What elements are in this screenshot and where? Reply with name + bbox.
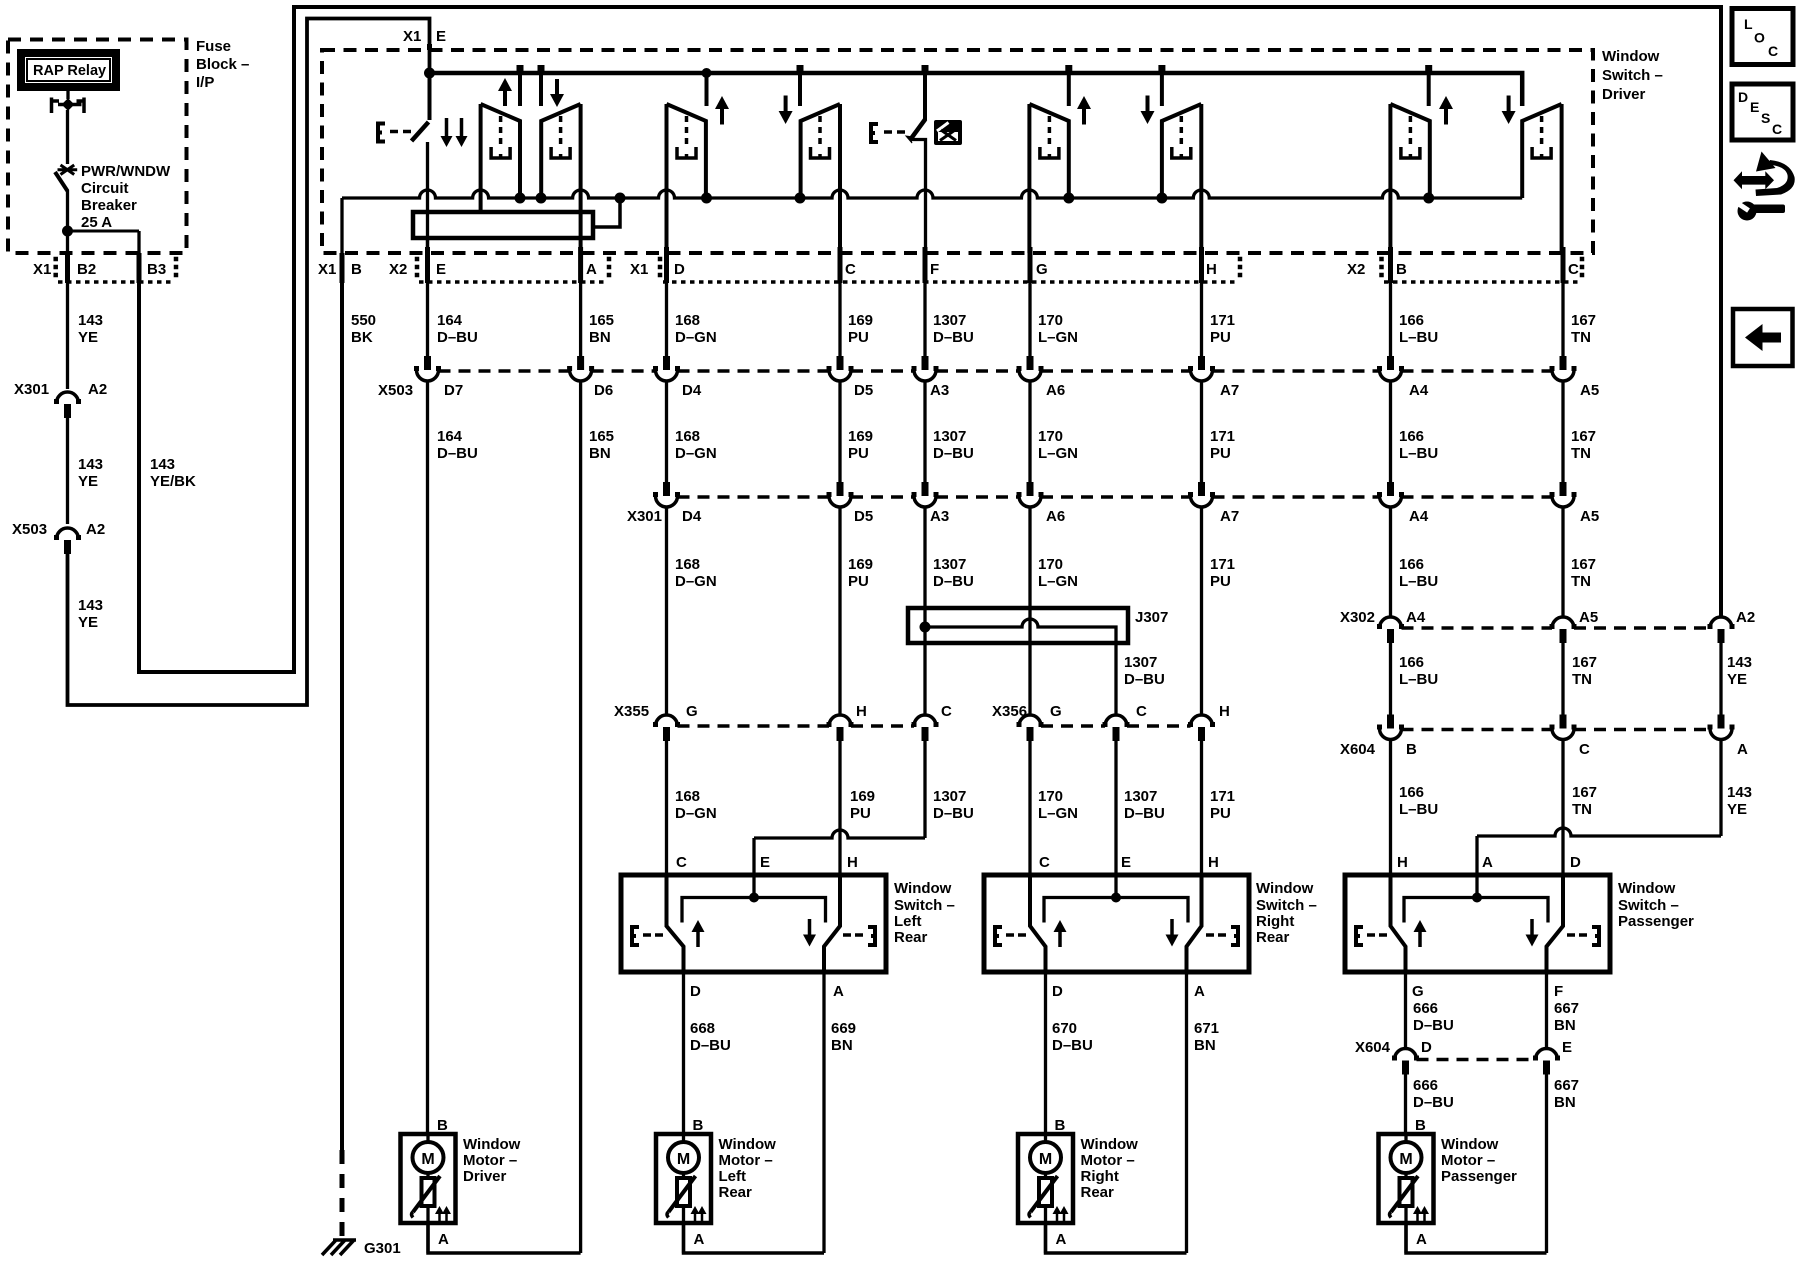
svg-text:YE: YE bbox=[1727, 671, 1747, 688]
svg-text:L: L bbox=[1744, 16, 1753, 32]
svg-text:Motor –: Motor – bbox=[463, 1152, 517, 1169]
svg-text:167: 167 bbox=[1571, 312, 1596, 329]
svg-text:BN: BN bbox=[589, 445, 611, 462]
svg-text:A3: A3 bbox=[930, 382, 949, 399]
fuse block I/P dashed enclosure bbox=[8, 40, 187, 254]
svg-text:C: C bbox=[845, 261, 856, 278]
svg-text:E: E bbox=[436, 261, 446, 278]
svg-text:YE: YE bbox=[1727, 801, 1747, 818]
svg-text:C: C bbox=[1039, 854, 1050, 871]
wire 669 BN bbox=[822, 972, 825, 1253]
svg-text:166: 166 bbox=[1399, 428, 1424, 445]
svg-text:667: 667 bbox=[1554, 1000, 1579, 1017]
svg-text:1307: 1307 bbox=[1124, 654, 1157, 671]
svg-text:Rear: Rear bbox=[719, 1184, 753, 1201]
svg-text:M: M bbox=[1399, 1151, 1412, 1168]
svg-text:H: H bbox=[1206, 261, 1217, 278]
svg-text:D–BU: D–BU bbox=[933, 329, 974, 346]
window motor left rear loop bbox=[684, 1223, 825, 1253]
svg-text:B: B bbox=[1055, 1117, 1066, 1134]
svg-text:D–BU: D–BU bbox=[690, 1037, 731, 1054]
window switch driver dashed box bbox=[322, 50, 1593, 253]
left rear up arrow bbox=[720, 107, 724, 125]
svg-text:168: 168 bbox=[675, 788, 700, 805]
svg-text:S: S bbox=[1761, 110, 1770, 126]
connector row X301 bbox=[663, 482, 670, 496]
svg-text:666: 666 bbox=[1413, 1077, 1438, 1094]
wire 668 D-BU bbox=[682, 972, 685, 1134]
right rear up arrow bbox=[1082, 107, 1086, 125]
svg-text:667: 667 bbox=[1554, 1077, 1579, 1094]
svg-text:G: G bbox=[1036, 261, 1048, 278]
svg-text:165: 165 bbox=[589, 428, 614, 445]
connector strip dotted separators bbox=[415, 257, 420, 262]
window lockout switch bbox=[923, 73, 927, 120]
svg-text:PU: PU bbox=[848, 329, 869, 346]
wire 550 BK dashed to ground bbox=[340, 1150, 345, 1241]
right rear up contact bbox=[1029, 104, 1068, 198]
svg-text:X355: X355 bbox=[614, 703, 649, 720]
wires X356 to right rear switch bbox=[1028, 741, 1031, 877]
svg-text:BN: BN bbox=[831, 1037, 853, 1054]
wire 670 D-BU bbox=[1044, 972, 1047, 1134]
svg-text:B: B bbox=[693, 1117, 704, 1134]
svg-text:B: B bbox=[437, 1117, 448, 1134]
svg-text:A2: A2 bbox=[88, 381, 107, 398]
connector strip dotted lines bbox=[419, 280, 607, 284]
svg-text:TN: TN bbox=[1572, 801, 1592, 818]
svg-text:C: C bbox=[1579, 741, 1590, 758]
svg-text:C: C bbox=[941, 703, 952, 720]
window motor right rear loop bbox=[1046, 1223, 1187, 1253]
svg-text:143: 143 bbox=[1727, 654, 1752, 671]
svg-text:YE/BK: YE/BK bbox=[150, 473, 196, 490]
svg-text:168: 168 bbox=[675, 556, 700, 573]
svg-text:C: C bbox=[1136, 703, 1147, 720]
svg-text:B3: B3 bbox=[147, 261, 166, 278]
svg-text:H: H bbox=[856, 703, 867, 720]
svg-text:Switch –: Switch – bbox=[1256, 897, 1317, 914]
svg-text:D–BU: D–BU bbox=[437, 445, 478, 462]
svg-text:143: 143 bbox=[78, 456, 103, 473]
svg-text:666: 666 bbox=[1413, 1000, 1438, 1017]
J307 internal bus bbox=[925, 619, 1116, 643]
svg-text:B: B bbox=[1396, 261, 1407, 278]
svg-text:143: 143 bbox=[78, 597, 103, 614]
svg-text:171: 171 bbox=[1210, 556, 1235, 573]
svg-text:D–GN: D–GN bbox=[675, 329, 717, 346]
svg-text:YE: YE bbox=[78, 473, 98, 490]
svg-text:Window: Window bbox=[1081, 1136, 1139, 1153]
svg-text:164: 164 bbox=[437, 312, 463, 329]
window motor passenger loop bbox=[1406, 1223, 1547, 1253]
svg-text:F: F bbox=[930, 261, 939, 278]
svg-text:Right: Right bbox=[1256, 913, 1294, 930]
svg-text:TN: TN bbox=[1571, 329, 1591, 346]
right rear down contact bbox=[1162, 104, 1201, 198]
svg-text:M: M bbox=[1039, 1151, 1052, 1168]
svg-text:170: 170 bbox=[1038, 788, 1063, 805]
svg-text:H: H bbox=[1219, 703, 1230, 720]
wire 666 D-BU upper bbox=[1404, 972, 1407, 1048]
wire 143 YE to driver switch X1-E bbox=[68, 19, 430, 706]
svg-text:A4: A4 bbox=[1409, 508, 1429, 525]
wires X301 down bbox=[665, 507, 668, 715]
svg-text:A: A bbox=[1482, 854, 1493, 871]
svg-text:X604: X604 bbox=[1355, 1039, 1391, 1056]
driver down contact bbox=[541, 104, 580, 198]
wires X604 to passenger switch bbox=[1389, 740, 1392, 877]
svg-text:Left: Left bbox=[719, 1168, 747, 1185]
window motor driver ground loop bbox=[428, 1223, 581, 1253]
svg-text:A: A bbox=[1416, 1231, 1427, 1248]
svg-text:671: 671 bbox=[1194, 1020, 1219, 1037]
svg-text:L–BU: L–BU bbox=[1399, 801, 1438, 818]
svg-text:D: D bbox=[1738, 89, 1748, 105]
svg-text:X356: X356 bbox=[992, 703, 1027, 720]
connector row X356 bbox=[1019, 715, 1041, 726]
svg-text:BN: BN bbox=[1194, 1037, 1216, 1054]
svg-text:A6: A6 bbox=[1046, 508, 1065, 525]
svg-text:X2: X2 bbox=[1347, 261, 1365, 278]
window lockout icon bbox=[934, 120, 962, 145]
svg-text:Left: Left bbox=[894, 913, 922, 930]
svg-text:170: 170 bbox=[1038, 428, 1063, 445]
svg-text:PU: PU bbox=[1210, 329, 1231, 346]
svg-text:G301: G301 bbox=[364, 1240, 401, 1257]
svg-text:PWR/WNDW: PWR/WNDW bbox=[81, 163, 171, 180]
svg-text:D–BU: D–BU bbox=[933, 573, 974, 590]
svg-text:A6: A6 bbox=[1046, 382, 1065, 399]
svg-text:A: A bbox=[833, 983, 844, 1000]
svg-text:170: 170 bbox=[1038, 312, 1063, 329]
svg-text:BN: BN bbox=[1554, 1094, 1576, 1111]
icon wiring diagram arrows bbox=[1734, 171, 1775, 189]
passenger down contact bbox=[1522, 104, 1561, 198]
svg-text:A5: A5 bbox=[1579, 609, 1598, 626]
svg-text:L–GN: L–GN bbox=[1038, 805, 1078, 822]
svg-text:D–GN: D–GN bbox=[675, 805, 717, 822]
svg-text:166: 166 bbox=[1399, 312, 1424, 329]
svg-text:L–BU: L–BU bbox=[1399, 445, 1438, 462]
svg-text:D–BU: D–BU bbox=[1052, 1037, 1093, 1054]
svg-text:L–GN: L–GN bbox=[1038, 329, 1078, 346]
svg-text:Motor –: Motor – bbox=[1081, 1152, 1135, 1169]
svg-text:G: G bbox=[686, 703, 698, 720]
svg-text:PU: PU bbox=[848, 445, 869, 462]
wire 550 BK pin stub bbox=[340, 253, 345, 283]
ground G301 bbox=[322, 1240, 356, 1255]
svg-text:D–BU: D–BU bbox=[1413, 1017, 1454, 1034]
svg-text:D: D bbox=[1570, 854, 1581, 871]
svg-text:168: 168 bbox=[675, 312, 700, 329]
RAP relay K77 bbox=[21, 53, 116, 87]
driver up arrow bbox=[503, 89, 507, 106]
svg-text:E: E bbox=[1121, 854, 1131, 871]
svg-text:BN: BN bbox=[589, 329, 611, 346]
svg-text:C: C bbox=[676, 854, 687, 871]
svg-text:D–BU: D–BU bbox=[933, 805, 974, 822]
svg-text:X604: X604 bbox=[1340, 741, 1376, 758]
wire RAP relay to breaker bbox=[66, 87, 69, 99]
svg-text:669: 669 bbox=[831, 1020, 856, 1037]
svg-text:D4: D4 bbox=[682, 508, 702, 525]
window switch passenger box bbox=[1345, 875, 1610, 972]
wire 666 D-BU lower bbox=[1404, 1074, 1407, 1134]
svg-text:Window: Window bbox=[1602, 48, 1660, 65]
svg-text:Switch –: Switch – bbox=[1618, 897, 1679, 914]
svg-text:165: 165 bbox=[589, 312, 614, 329]
svg-text:X301: X301 bbox=[627, 508, 662, 525]
svg-text:D–GN: D–GN bbox=[675, 573, 717, 590]
power bus in driver switch bbox=[430, 73, 1523, 106]
svg-text:X301: X301 bbox=[14, 381, 49, 398]
svg-text:167: 167 bbox=[1572, 784, 1597, 801]
svg-text:Motor –: Motor – bbox=[1441, 1152, 1495, 1169]
svg-text:Window: Window bbox=[1256, 880, 1314, 897]
svg-text:RAP Relay: RAP Relay bbox=[33, 63, 106, 79]
svg-text:X503: X503 bbox=[12, 521, 47, 538]
express double down arrows bbox=[445, 118, 449, 138]
svg-text:PU: PU bbox=[850, 805, 871, 822]
svg-text:550: 550 bbox=[351, 312, 376, 329]
svg-text:Circuit: Circuit bbox=[81, 180, 129, 197]
window switch right rear box bbox=[984, 875, 1249, 972]
wires X302 to X604 bbox=[1389, 643, 1392, 715]
svg-text:D5: D5 bbox=[854, 508, 873, 525]
svg-text:PU: PU bbox=[848, 573, 869, 590]
wires X503 to X301 bbox=[426, 381, 429, 1134]
passenger up contact bbox=[1390, 104, 1429, 198]
svg-text:Passenger: Passenger bbox=[1618, 913, 1694, 930]
svg-text:X1: X1 bbox=[318, 261, 336, 278]
wire 143 YE/BK from X1-B3 to X302 bbox=[137, 253, 142, 283]
svg-text:Window: Window bbox=[1441, 1136, 1499, 1153]
right rear down arrow bbox=[1146, 96, 1150, 114]
svg-text:25 A: 25 A bbox=[81, 214, 112, 231]
svg-text:D–BU: D–BU bbox=[933, 445, 974, 462]
svg-text:H: H bbox=[847, 854, 858, 871]
connector X301 pin A2 (left) bbox=[57, 392, 79, 403]
svg-text:Breaker: Breaker bbox=[81, 197, 137, 214]
svg-text:F: F bbox=[1554, 983, 1563, 1000]
svg-text:BN: BN bbox=[1554, 1017, 1576, 1034]
svg-text:D–GN: D–GN bbox=[675, 445, 717, 462]
connector row X503 bbox=[424, 356, 431, 370]
svg-text:Block –: Block – bbox=[196, 56, 249, 73]
svg-text:Motor –: Motor – bbox=[719, 1152, 773, 1169]
svg-text:C: C bbox=[1768, 43, 1778, 59]
svg-text:B: B bbox=[1406, 741, 1417, 758]
svg-text:1307: 1307 bbox=[933, 312, 966, 329]
svg-text:Rear: Rear bbox=[894, 929, 928, 946]
wire 667 BN lower bbox=[1545, 1074, 1548, 1253]
svg-text:Driver: Driver bbox=[1602, 86, 1646, 103]
svg-text:169: 169 bbox=[848, 556, 873, 573]
svg-text:Switch –: Switch – bbox=[1602, 67, 1663, 84]
svg-text:E: E bbox=[1750, 99, 1759, 115]
left rear down contact bbox=[801, 104, 840, 198]
svg-text:D7: D7 bbox=[444, 382, 463, 399]
svg-text:E: E bbox=[436, 28, 446, 45]
svg-text:Driver: Driver bbox=[463, 1168, 507, 1185]
svg-text:TN: TN bbox=[1571, 445, 1591, 462]
wire breaker to X1 pins bbox=[66, 190, 69, 253]
svg-text:Rear: Rear bbox=[1256, 929, 1290, 946]
svg-text:Right: Right bbox=[1081, 1168, 1119, 1185]
icon back arrow bbox=[1733, 309, 1793, 366]
wire 667 BN upper bbox=[1545, 972, 1548, 1048]
express down switch E marker bbox=[378, 124, 385, 142]
svg-text:PU: PU bbox=[1210, 573, 1231, 590]
svg-text:BK: BK bbox=[351, 329, 373, 346]
wires X355 to left rear switch bbox=[665, 741, 668, 877]
svg-text:168: 168 bbox=[675, 428, 700, 445]
passenger down arrow bbox=[1507, 96, 1511, 114]
svg-text:YE: YE bbox=[78, 329, 98, 346]
connector row X604 lower bbox=[1395, 1049, 1417, 1060]
svg-text:670: 670 bbox=[1052, 1020, 1077, 1037]
express down switch blade bbox=[428, 71, 432, 120]
bus tap junctions bbox=[517, 65, 524, 73]
svg-text:A4: A4 bbox=[1409, 382, 1429, 399]
svg-text:M: M bbox=[421, 1151, 434, 1168]
svg-text:143: 143 bbox=[150, 456, 175, 473]
svg-text:PU: PU bbox=[1210, 445, 1231, 462]
driver down arrow bbox=[555, 79, 559, 96]
svg-text:A7: A7 bbox=[1220, 508, 1239, 525]
svg-text:E: E bbox=[1562, 1039, 1572, 1056]
svg-text:D–BU: D–BU bbox=[1413, 1094, 1454, 1111]
svg-text:A4: A4 bbox=[1406, 609, 1426, 626]
svg-text:Fuse: Fuse bbox=[196, 38, 231, 55]
svg-text:1307: 1307 bbox=[1124, 788, 1157, 805]
svg-text:I/P: I/P bbox=[196, 74, 214, 91]
svg-text:171: 171 bbox=[1210, 428, 1235, 445]
svg-text:A: A bbox=[1056, 1231, 1067, 1248]
svg-text:B2: B2 bbox=[77, 261, 96, 278]
svg-text:166: 166 bbox=[1399, 784, 1424, 801]
svg-text:Window: Window bbox=[719, 1136, 777, 1153]
svg-text:167: 167 bbox=[1571, 556, 1596, 573]
svg-text:166: 166 bbox=[1399, 556, 1424, 573]
svg-text:170: 170 bbox=[1038, 556, 1063, 573]
svg-text:A: A bbox=[694, 1231, 705, 1248]
svg-text:L–BU: L–BU bbox=[1399, 573, 1438, 590]
left rear down arrow bbox=[784, 96, 788, 114]
svg-text:O: O bbox=[1754, 30, 1765, 46]
left rear up contact bbox=[667, 104, 706, 198]
connector row X604 bbox=[1387, 715, 1394, 729]
svg-text:D: D bbox=[690, 983, 701, 1000]
svg-text:D5: D5 bbox=[854, 382, 873, 399]
splice pack J307 bbox=[908, 608, 1128, 643]
connector row X355 bbox=[656, 715, 678, 726]
svg-text:D: D bbox=[1421, 1039, 1432, 1056]
svg-text:668: 668 bbox=[690, 1020, 715, 1037]
icon DESC bbox=[1732, 84, 1793, 140]
svg-text:B: B bbox=[1415, 1117, 1426, 1134]
svg-text:A3: A3 bbox=[930, 508, 949, 525]
svg-text:164: 164 bbox=[437, 428, 463, 445]
svg-text:E: E bbox=[760, 854, 770, 871]
svg-text:A2: A2 bbox=[86, 521, 105, 538]
window switch left rear box bbox=[621, 875, 886, 972]
svg-text:A: A bbox=[438, 1231, 449, 1248]
switch common return line bbox=[340, 198, 343, 253]
pin stubs through strip bbox=[425, 247, 430, 283]
icon LOC bbox=[1732, 9, 1793, 65]
svg-text:Switch –: Switch – bbox=[894, 897, 955, 914]
svg-text:G: G bbox=[1050, 703, 1062, 720]
svg-text:D: D bbox=[674, 261, 685, 278]
connector X503 pin A2 (left) bbox=[57, 528, 79, 539]
bus tap drops bbox=[518, 73, 522, 106]
express module bar bbox=[413, 212, 593, 238]
svg-text:YE: YE bbox=[78, 614, 98, 631]
svg-text:X1: X1 bbox=[403, 28, 421, 45]
svg-text:X2: X2 bbox=[389, 261, 407, 278]
passenger up arrow bbox=[1444, 107, 1448, 125]
wire 671 BN bbox=[1185, 972, 1188, 1253]
svg-text:J307: J307 bbox=[1135, 609, 1168, 626]
svg-text:A: A bbox=[586, 261, 597, 278]
svg-text:X1: X1 bbox=[33, 261, 51, 278]
svg-text:D6: D6 bbox=[594, 382, 613, 399]
svg-text:H: H bbox=[1397, 854, 1408, 871]
svg-text:1307: 1307 bbox=[933, 556, 966, 573]
circuit breaker PWR/WNDW 25A bbox=[58, 165, 78, 175]
svg-text:X503: X503 bbox=[378, 382, 413, 399]
svg-text:166: 166 bbox=[1399, 654, 1424, 671]
svg-text:PU: PU bbox=[1210, 805, 1231, 822]
svg-text:169: 169 bbox=[850, 788, 875, 805]
svg-text:A: A bbox=[1737, 741, 1748, 758]
wire 143 YE below X301 bbox=[66, 417, 69, 524]
svg-text:L–BU: L–BU bbox=[1399, 329, 1438, 346]
svg-text:143: 143 bbox=[78, 312, 103, 329]
svg-text:X1: X1 bbox=[630, 261, 648, 278]
fuse holder symbol bbox=[52, 98, 85, 114]
connector row X302 bbox=[1380, 617, 1402, 628]
svg-text:C: C bbox=[1568, 261, 1579, 278]
svg-text:171: 171 bbox=[1210, 312, 1235, 329]
svg-text:TN: TN bbox=[1571, 573, 1591, 590]
svg-text:167: 167 bbox=[1572, 654, 1597, 671]
svg-text:Window: Window bbox=[463, 1136, 521, 1153]
svg-text:Passenger: Passenger bbox=[1441, 1168, 1517, 1185]
svg-text:D–BU: D–BU bbox=[1124, 671, 1165, 688]
svg-text:L–BU: L–BU bbox=[1399, 671, 1438, 688]
svg-text:1307: 1307 bbox=[933, 788, 966, 805]
svg-text:H: H bbox=[1208, 854, 1219, 871]
wire 143 YE from X1-B2 bbox=[65, 253, 70, 283]
svg-text:C: C bbox=[1772, 121, 1782, 137]
svg-text:X302: X302 bbox=[1340, 609, 1375, 626]
svg-text:169: 169 bbox=[848, 428, 873, 445]
svg-text:A: A bbox=[1194, 983, 1205, 1000]
svg-text:L–GN: L–GN bbox=[1038, 445, 1078, 462]
wires strip to X503 bbox=[426, 282, 429, 356]
svg-text:D–BU: D–BU bbox=[1124, 805, 1165, 822]
svg-text:169: 169 bbox=[848, 312, 873, 329]
svg-text:A5: A5 bbox=[1580, 382, 1599, 399]
svg-text:A5: A5 bbox=[1580, 508, 1599, 525]
svg-text:TN: TN bbox=[1572, 671, 1592, 688]
svg-text:A2: A2 bbox=[1736, 609, 1755, 626]
svg-text:167: 167 bbox=[1571, 428, 1596, 445]
svg-text:D4: D4 bbox=[682, 382, 702, 399]
